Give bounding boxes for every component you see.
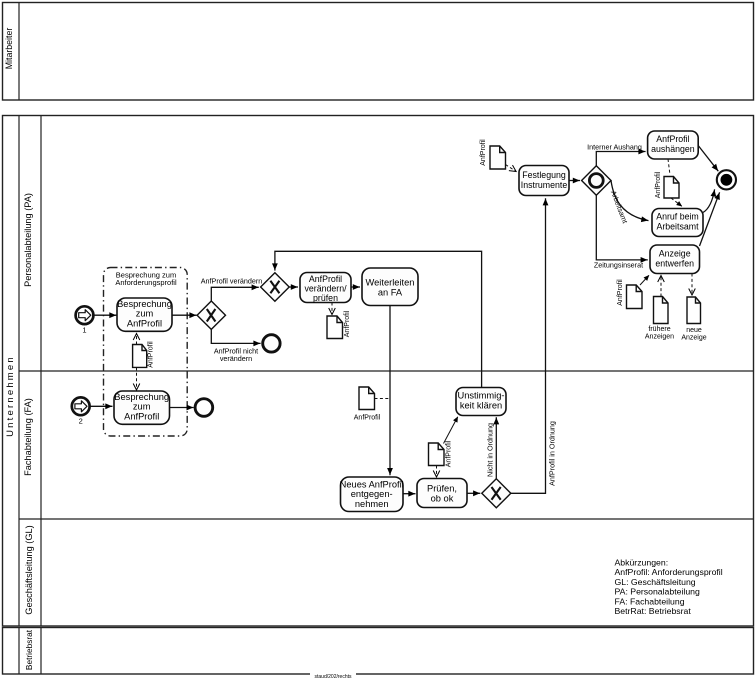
svg-text:neue: neue [686,327,702,334]
task Prüfen, ob ok [417,479,467,508]
dashed association doc to Anruf beim Arbeitsamt [671,198,682,206]
wire Neues AnfProfil to Prüfen ob ok [403,493,416,495]
gateway X3 exclusive [482,479,511,508]
wire task Besprechung(PA) to gateway X1 [172,314,197,316]
svg-text:an FA: an FA [378,288,403,298]
svg-text:Besprechung: Besprechung [117,299,172,309]
task Festlegung Instrumente [519,166,569,196]
svg-text:zum: zum [133,402,151,412]
svg-text:BetrRat: Betriebsrat: BetrRat: Betriebsrat [615,606,692,616]
svg-text:Neues AnfProfil: Neues AnfProfil [340,480,404,490]
svg-text:1: 1 [82,326,86,335]
lane Fachabteilung (FA) [23,398,33,476]
dashed association doc to Festlegung Instrumente [506,165,516,172]
task Weiterleiten an FA [362,268,418,306]
wire gateway X3 right and up to Festlegung Instrumente label AnfProfil in Ordnung [511,198,557,493]
document AnfProfil (left of Anzeige entwerfen) [617,279,642,309]
svg-text:AnfProfil verändern: AnfProfil verändern [201,277,263,286]
task AnfProfil verändern/prüfen [300,273,351,304]
wire aushängen to end event [698,146,718,172]
svg-text:verändern: verändern [220,354,252,363]
start event 2 (link, FA) [72,397,90,425]
association doc to Anzeige entwerfen [640,275,649,285]
dashed association doc to long wire [375,398,390,400]
wire gateway X1 up to gateway X2 label AnfProfil verändern [201,277,263,302]
svg-text:AnfProfil: AnfProfil [617,279,624,306]
gateway X1 exclusive [197,301,225,329]
svg-text:AnfProfil: Anforderungsprofil: AnfProfil: Anforderungsprofil [615,567,723,577]
task Neues AnfProfil entgegennehmen [340,477,404,512]
task Besprechung zum AnfProfil (PA) [117,298,172,331]
svg-text:Anruf beim: Anruf beim [656,212,699,222]
start event 1 (link) [76,306,94,334]
gateway event-based [582,166,611,195]
task Besprechung zum AnfProfil (FA) [114,391,170,424]
wire start2 to task Besprechung (FA) [90,405,113,407]
lane Geschäftsleitung (GL) [24,525,34,614]
svg-text:Festlegung: Festlegung [522,170,566,180]
svg-text:AnfProfil: AnfProfil [656,134,689,144]
pool Betriebsrat [3,628,754,675]
footer stamp staud/202/rechts [310,672,356,681]
svg-text:staud/202/rechts: staud/202/rechts [315,674,352,680]
svg-text:Weiterleiten: Weiterleiten [366,278,415,288]
svg-text:Betriebsrat: Betriebsrat [24,629,34,670]
svg-text:AnfProfil in Ordnung: AnfProfil in Ordnung [548,421,557,486]
svg-text:Prüfen,: Prüfen, [427,484,457,494]
gateway X2 exclusive (merge) [261,273,290,302]
lane boundary PA/FA [19,370,754,372]
svg-text:Besprechung: Besprechung [114,392,169,402]
wire Anzeige entwerfen to end event [700,192,720,246]
wire Prüfen ob ok to gateway X3 [467,492,480,494]
svg-text:keit klären: keit klären [460,401,502,411]
svg-text:Arbeitsamt: Arbeitsamt [656,222,699,232]
task Anruf beim Arbeitsamt [652,209,703,237]
svg-text:Zeitungsinserat: Zeitungsinserat [594,261,643,270]
task Unstimmigkeit klären [456,388,506,416]
pool Unternehmen [3,116,754,627]
svg-text:AnfProfil: AnfProfil [309,274,342,284]
dashed association doc to task Besprechung FA (down) [136,367,138,389]
task AnfProfil aushängen [648,131,699,159]
svg-text:zum: zum [136,309,154,319]
wire task Besprechung(FA) to end event [170,407,194,409]
lane boundary FA/GL [19,518,754,520]
svg-text:AnfProfil: AnfProfil [480,139,487,166]
svg-text:Interner Aushang: Interner Aushang [587,143,642,152]
svg-text:Personalabteilung (PA): Personalabteilung (PA) [23,193,33,287]
svg-text:Instrumente: Instrumente [521,180,568,190]
dashed association frühere Anzeigen to task (up) [660,276,662,297]
document AnfProfil (below verändern/prüfen) [327,310,351,338]
svg-text:PA: Personalabteilung: PA: Personalabteilung [615,587,700,597]
wire gateway X3 up to Unstimmigkeit klären label Nicht in Ordnung [486,417,497,479]
svg-text:Mitarbeiter: Mitarbeiter [4,28,14,70]
wire Festlegung Instrumente to event gateway [569,180,580,182]
document AnfProfil (left of Festlegung Instrumente) [480,139,506,169]
svg-text:FA: Fachabteilung: FA: Fachabteilung [615,596,685,606]
svg-text:AnfProfil: AnfProfil [127,319,162,329]
svg-text:AnfProfil: AnfProfil [148,341,155,368]
wire Weiterleiten an FA down to Neues AnfProfil entgegennehmen [389,306,391,476]
document AnfProfil (above Prüfen) [429,440,453,467]
svg-text:Fachabteilung (FA): Fachabteilung (FA) [23,398,33,476]
document neue Anzeige [681,297,706,342]
svg-text:frühere: frühere [648,326,670,333]
svg-text:Anzeige: Anzeige [681,335,706,342]
svg-text:Nicht in Ordnung: Nicht in Ordnung [486,423,495,477]
document AnfProfil (below aushängen) [655,171,679,198]
svg-text:verändern/: verändern/ [304,284,347,294]
wire feedback from Unstimmigkeit klären to gateway X2 [275,251,482,387]
svg-text:Unternehmen: Unternehmen [5,355,16,437]
dashed association task to neue Anzeige (down) [691,274,693,295]
task Anzeige entwerfen [650,245,700,274]
svg-text:nehmen: nehmen [355,499,389,509]
dashed association doc to task Besprechung PA (up) [136,334,138,345]
dashed association doc to task Prüfen (down) [436,466,438,477]
svg-text:AnfProfil: AnfProfil [446,440,453,467]
svg-text:Unstimmig-: Unstimmig- [457,391,504,401]
legend Abkürzungen [615,558,723,617]
svg-text:Anforderungsprofil: Anforderungsprofil [115,278,177,287]
svg-text:entwerfen: entwerfen [655,259,694,269]
end event (AnfProfil nicht verändern) [263,335,280,352]
wire gateway X2 to task AnfProfil verändern/prüfen [289,286,298,288]
wire gateway X1 down to end event label AnfProfil nicht verändern [211,329,260,363]
wire event gateway down/right to Anzeige entwerfen label Zeitungsinserat [594,195,648,269]
svg-text:AnfProfil: AnfProfil [124,412,159,422]
svg-text:Anzeige: Anzeige [659,249,691,259]
group Besprechung zum Anforderungsprofil [104,268,188,437]
pool Mitarbeiter [3,3,754,101]
svg-text:2: 2 [79,417,83,426]
svg-text:Abkürzungen:: Abkürzungen: [615,558,669,568]
document AnfProfil (FA, left of long wire) [354,387,381,422]
wire event gateway up to AnfProfil aushängen label Interner Aushang [587,143,645,166]
svg-text:Anzeigen: Anzeigen [645,334,674,341]
dashed association aushängen to document [668,159,670,175]
lane Personalabteilung (PA) [23,193,33,287]
svg-text:AnfProfil: AnfProfil [344,310,351,337]
svg-text:ob ok: ob ok [431,494,454,504]
wire event gateway to Anruf beim Arbeitsamt label Arbeitsamt [609,181,649,225]
end event terminate [717,170,736,189]
svg-text:AnfProfil: AnfProfil [354,415,381,422]
svg-text:prüfen: prüfen [313,293,338,303]
svg-text:AnfProfil: AnfProfil [655,171,662,198]
association doc to Unstimmigkeit klären (diagonal) [444,417,458,444]
svg-text:entgegen-: entgegen- [351,489,393,499]
wire Anruf beim Arbeitsamt to end event [703,189,715,212]
document frühere Anzeigen [645,297,674,341]
wire task AnfProfil verändern/prüfen to task Weiterleiten an FA [351,286,360,288]
svg-text:Geschäftsleitung (GL): Geschäftsleitung (GL) [24,525,34,614]
dashed association task AnfProfil verändern/prüfen to document [331,303,333,315]
svg-text:GL: Geschäftsleitung: GL: Geschäftsleitung [615,577,696,587]
wire start1 to task Besprechung (PA) [94,314,117,316]
end event (FA Besprechung) [195,399,213,417]
svg-text:aushängen: aushängen [651,144,695,154]
document AnfProfil (between Besprechung tasks) [133,341,155,368]
